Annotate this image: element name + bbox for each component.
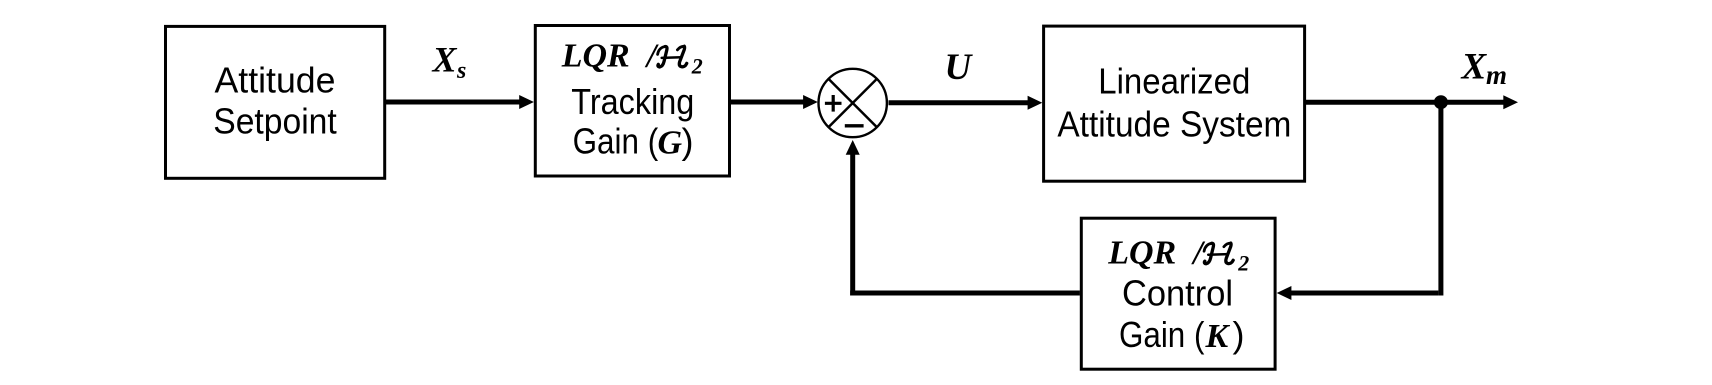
minus sign [845, 124, 864, 127]
svg-text:Tracking: Tracking [571, 81, 694, 122]
svg-text:G: G [658, 125, 683, 162]
svg-text:m: m [1486, 60, 1507, 90]
svg-text:Attitude: Attitude [215, 60, 336, 101]
wire: feedback vertical down from node [1438, 102, 1443, 295]
wire: summing junction to Linearized Attitude System [889, 100, 1030, 105]
wire: Tracking Gain to summing junction [731, 100, 804, 105]
wire: feedback into Control Gain [1290, 291, 1438, 296]
junction dot [1434, 95, 1448, 109]
svg-text:Attitude System: Attitude System [1057, 103, 1291, 144]
svg-text:Setpoint: Setpoint [213, 101, 337, 142]
box: Linearized Attitude System [1044, 26, 1305, 181]
svg-text:Gain (: Gain ( [1119, 314, 1204, 355]
svg-text:U: U [945, 47, 974, 88]
svg-text:s: s [456, 58, 466, 84]
box: LQR/H2 Control Gain (K) [1081, 218, 1275, 369]
svg-text:X: X [1461, 47, 1488, 88]
wire: Attitude Setpoint to Tracking Gain [386, 100, 521, 105]
summing junction [819, 69, 887, 137]
svg-text:): ) [1233, 314, 1245, 355]
wire: output with branch node [1306, 100, 1504, 105]
box: LQR/H2 Tracking Gain (G) [535, 26, 729, 177]
box: Attitude Setpoint [166, 26, 385, 178]
svg-text:): ) [682, 121, 694, 162]
svg-text:Linearized: Linearized [1098, 61, 1250, 102]
svg-text:Gain (: Gain ( [573, 121, 659, 162]
wire: feedback from Control Gain left to below summing junction [850, 291, 1080, 296]
svg-text:Control: Control [1122, 272, 1233, 313]
svg-text:K: K [1205, 318, 1231, 355]
plus sign [825, 102, 842, 105]
svg-text:X: X [432, 40, 458, 80]
